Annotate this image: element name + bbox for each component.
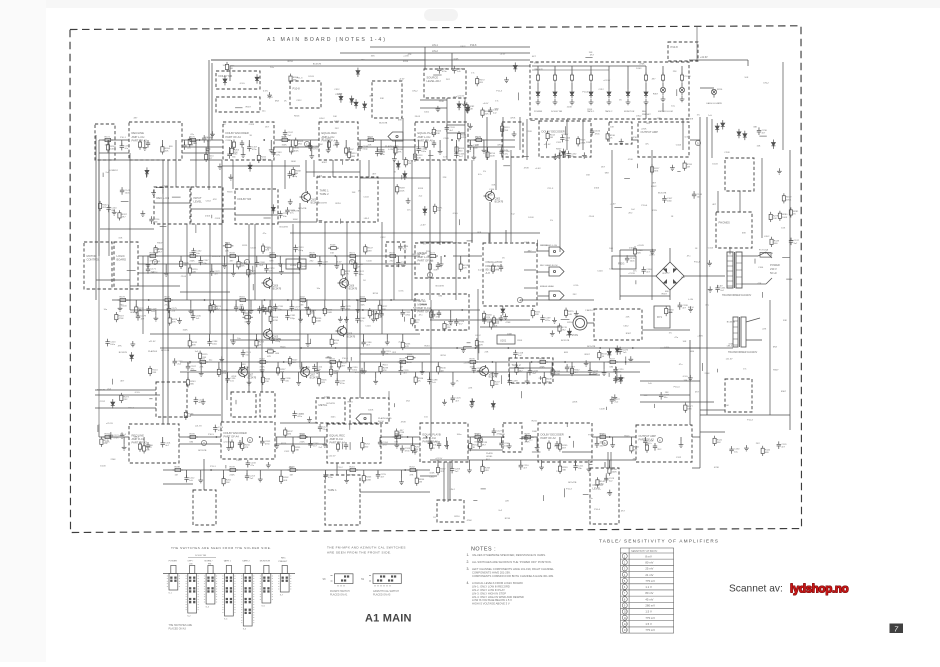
wire: [468, 146, 515, 148]
capacitor C145: [432, 140, 436, 148]
wire: [559, 150, 561, 252]
wire: [256, 256, 258, 263]
resistor R192: [258, 358, 269, 368]
ground: [553, 99, 558, 105]
wire: [261, 437, 263, 441]
svg-text:47K: 47K: [213, 199, 217, 201]
wire: [590, 83, 592, 89]
resistor R129: [405, 354, 416, 364]
capacitor C173: [264, 265, 275, 273]
svg-text:C209: C209: [524, 242, 530, 244]
diode D136: [271, 204, 275, 213]
capacitor C213: [245, 473, 256, 481]
svg-text:100n: 100n: [424, 112, 430, 114]
resistor R106: [661, 73, 664, 83]
ground: [413, 448, 418, 454]
capacitor C121: [109, 432, 120, 440]
switch S9 (AZIMUTH CAL): [361, 574, 401, 587]
capacitor C133: [293, 245, 304, 253]
wire: [306, 171, 360, 173]
wire: [572, 441, 574, 448]
wire: [107, 140, 109, 145]
svg-text:LIN-2: ONLY LOW IN PLAY: LIN-2: ONLY LOW IN PLAY: [472, 588, 505, 592]
resistor R272: [476, 76, 486, 86]
resistor R276: [558, 323, 568, 333]
capacitor C180: [191, 313, 202, 321]
block TAPE 2 sense block: [509, 358, 553, 383]
svg-text:1M: 1M: [408, 163, 411, 165]
wire: [138, 255, 420, 257]
svg-text:100K: 100K: [291, 161, 297, 163]
capacitor C176: [234, 304, 245, 312]
svg-text:100n: 100n: [421, 151, 427, 153]
block playb level block: [503, 423, 522, 452]
capacitor C228: [659, 392, 670, 400]
svg-text:22K: 22K: [200, 366, 204, 368]
capacitor C221: [264, 307, 275, 315]
capacitor C141: [120, 187, 131, 195]
bridge rectifier D301-D304: [656, 262, 684, 290]
svg-text:BC547B: BC547B: [212, 256, 221, 258]
wire: [477, 289, 479, 360]
wire: [195, 224, 197, 233]
wire: [700, 431, 725, 433]
resistor R223: [135, 304, 145, 314]
resistor R201: [348, 466, 359, 476]
svg-text:LEVEL: LEVEL: [194, 199, 203, 203]
svg-text:47K: 47K: [267, 356, 271, 358]
wire: [276, 437, 278, 443]
ground: [151, 190, 156, 196]
capacitor C139: [540, 315, 551, 323]
ground: [503, 314, 508, 320]
svg-text:470K: 470K: [467, 520, 473, 522]
svg-text:1%: 1%: [302, 302, 305, 304]
resistor R142: [761, 446, 771, 456]
wire: [571, 66, 573, 75]
svg-text:220K: 220K: [360, 304, 366, 306]
svg-text:EQUAL PLAYB: EQUAL PLAYB: [423, 432, 441, 436]
svg-text:15K: 15K: [644, 395, 648, 397]
svg-text:NORM /: NORM /: [205, 561, 213, 563]
svg-text:10K: 10K: [319, 144, 323, 146]
capacitor C232: [566, 151, 577, 159]
resistor R202: [408, 466, 419, 476]
svg-text:P10-8: P10-8: [293, 87, 301, 91]
resistor R111: [457, 131, 466, 141]
resistor R132: [492, 315, 502, 325]
resistor R245: [317, 376, 327, 386]
resistor R145: [261, 244, 271, 254]
ground: [206, 146, 211, 152]
wire: [669, 290, 671, 300]
resistor R149: [770, 237, 780, 247]
svg-text:LIN-1: LIN-1: [432, 44, 439, 47]
wire: [235, 214, 278, 216]
svg-text:C209: C209: [226, 140, 232, 142]
svg-text:50 Hz: 50 Hz: [770, 271, 777, 275]
wire: [447, 132, 465, 134]
wire: [662, 103, 664, 112]
resistor R255: [558, 441, 568, 451]
wire: [316, 362, 318, 368]
diode D118: [396, 161, 400, 170]
wire: [182, 146, 223, 148]
capacitor C233: [246, 460, 257, 468]
svg-text:BC547B: BC547B: [280, 227, 289, 229]
svg-text:D103: D103: [528, 217, 534, 219]
resistor R239: [379, 364, 389, 374]
resistor R275: [564, 308, 574, 318]
wire: [620, 249, 656, 251]
capacitor C156: [182, 142, 193, 150]
svg-text:470K: 470K: [607, 493, 613, 495]
wire: [252, 266, 254, 272]
ground: [406, 198, 411, 204]
svg-text:1%: 1%: [483, 171, 486, 173]
wire: [301, 362, 303, 367]
ground: [550, 330, 555, 336]
svg-text:TAPE 1: TAPE 1: [224, 560, 232, 563]
svg-text:P10-2: P10-2: [633, 137, 640, 139]
wire: [298, 256, 300, 263]
wire: [290, 232, 540, 234]
block level adj block: [424, 69, 466, 98]
ground: [644, 99, 649, 105]
wire: [440, 256, 442, 261]
svg-text:33K: 33K: [742, 233, 746, 235]
wire: [420, 241, 453, 243]
block DOLBY DECODER R (part of A7): [538, 423, 592, 462]
diode D132: [715, 123, 719, 132]
ground: [607, 490, 612, 496]
diode D122: [111, 399, 115, 408]
svg-text:47K: 47K: [539, 69, 543, 71]
svg-text:R129: R129: [407, 354, 413, 356]
wire: [273, 147, 275, 152]
ground: [344, 477, 349, 483]
svg-text:100K: 100K: [316, 321, 322, 323]
node junction: [414, 139, 416, 141]
svg-text:R181: R181: [240, 296, 246, 298]
wire: [520, 391, 522, 398]
wire: [607, 452, 609, 470]
wire: [213, 300, 215, 305]
block input jack block L: [95, 124, 115, 160]
wire: [121, 140, 123, 146]
ground: [525, 378, 530, 384]
resistor R151: [531, 308, 541, 318]
wire: [769, 300, 771, 415]
svg-text:15K: 15K: [757, 145, 761, 147]
resistor R238: [329, 367, 339, 377]
capacitor C198: [427, 377, 438, 385]
wire: [393, 147, 395, 156]
node junction: [283, 361, 285, 363]
svg-text:15K: 15K: [586, 175, 590, 177]
diode D125: [607, 348, 611, 357]
svg-text:0.5%: 0.5%: [453, 213, 458, 215]
svg-text:10K: 10K: [493, 326, 497, 328]
ground: [462, 101, 467, 107]
ground: [228, 174, 233, 180]
wire: [180, 361, 650, 363]
svg-text:100K: 100K: [327, 312, 333, 314]
wire: [468, 436, 503, 438]
svg-text:LIN-2: LIN-2: [475, 335, 481, 337]
ground: [777, 168, 782, 174]
svg-text:R201: R201: [350, 466, 356, 468]
ground: [550, 369, 555, 375]
capacitor C117: [482, 316, 493, 324]
svg-text:LOGICAL LEVELS FROM LOGIC: LOGICAL LEVELS FROM LOGIC BOARD:: [472, 581, 524, 585]
switch S7 (REC): [280, 565, 289, 596]
svg-text:220p: 220p: [363, 149, 369, 151]
svg-text:470K: 470K: [251, 273, 257, 275]
capacitor C178: [341, 304, 352, 312]
svg-text:R307: R307: [662, 293, 668, 295]
svg-text:DOLBY DECODER: DOLBY DECODER: [541, 432, 564, 436]
svg-text:470K: 470K: [221, 373, 227, 375]
wire: [190, 414, 221, 416]
svg-text:R194: R194: [400, 358, 406, 360]
node junction: [340, 361, 342, 363]
ground: [142, 144, 147, 150]
resistor R167: [188, 252, 199, 262]
wire: [460, 256, 462, 264]
wire: [209, 334, 211, 342]
wire: [360, 177, 430, 179]
svg-text:L-CH: L-CH: [388, 149, 394, 151]
block tape counter block: [437, 500, 464, 522]
wire: [429, 437, 431, 442]
wire: [501, 147, 503, 152]
wire: [270, 310, 272, 316]
svg-text:4.: 4.: [467, 581, 470, 585]
svg-text:LIN-2: LIN-2: [636, 115, 642, 117]
wire: [619, 250, 621, 300]
wire: [473, 362, 475, 369]
capacitor C182: [355, 316, 366, 324]
svg-text:LEVEL ADJ: LEVEL ADJ: [427, 79, 442, 83]
wire: [168, 300, 170, 308]
wire: [563, 488, 565, 497]
svg-text:DOLBY ENCODER: DOLBY ENCODER: [226, 131, 249, 135]
svg-text:470K: 470K: [505, 322, 511, 324]
resistor R147: [364, 244, 374, 254]
wire: [270, 140, 272, 147]
resistor R243: [186, 377, 196, 387]
wire: [340, 52, 530, 54]
capacitor C150: [555, 441, 559, 449]
svg-text:PART OF A2: PART OF A2: [541, 436, 557, 440]
node junction: [444, 255, 446, 257]
diode D115: [145, 167, 149, 176]
svg-text:R180: R180: [165, 296, 171, 298]
switch S8 (FM-MPX): [323, 574, 354, 587]
wire: [379, 437, 381, 442]
svg-text:15K: 15K: [330, 253, 334, 255]
svg-text:DOLBY ENCODER: DOLBY ENCODER: [224, 431, 247, 435]
wire: [505, 230, 507, 243]
svg-text:47K: 47K: [431, 448, 435, 450]
node junction: [306, 436, 308, 438]
wire: [143, 437, 145, 446]
capacitor C142: [146, 140, 150, 148]
capacitor C205: [428, 439, 439, 447]
node junction: [216, 436, 218, 438]
wire: [394, 140, 396, 148]
svg-text:OFF /: OFF /: [188, 561, 194, 563]
node junction: [431, 309, 433, 311]
wire: [228, 147, 230, 154]
svg-text:P11-3: P11-3: [496, 91, 502, 93]
ground: [373, 378, 378, 384]
resistor R141: [713, 436, 723, 446]
wire: [439, 140, 441, 148]
svg-text:R174: R174: [105, 136, 111, 138]
ground: [448, 319, 453, 325]
capacitor C162: [227, 151, 238, 159]
svg-text:47K: 47K: [361, 59, 365, 61]
wire: [471, 233, 473, 243]
wire: [307, 334, 309, 341]
diode D119: [403, 171, 407, 180]
svg-text:220K: 220K: [724, 405, 730, 407]
svg-text:C104: C104: [708, 248, 714, 250]
capacitor C211: [573, 463, 584, 471]
resistor R175: [188, 136, 199, 146]
wire: [739, 191, 741, 212]
capacitor C124: [292, 411, 303, 419]
svg-text:LIN-3: LIN-3: [460, 46, 466, 48]
svg-text:R216: R216: [441, 355, 447, 357]
svg-text:15K: 15K: [265, 381, 269, 383]
svg-text:LOGIC: LOGIC: [117, 254, 125, 258]
svg-text:ARE SEEN FROM THE FRONT S: ARE SEEN FROM THE FRONT SIDE.: [327, 550, 392, 554]
svg-text:100n: 100n: [630, 260, 636, 262]
svg-text:1M: 1M: [146, 449, 149, 451]
wire: [240, 362, 242, 367]
ground: [344, 316, 349, 322]
node junction: [287, 299, 289, 301]
svg-text:R167: R167: [190, 252, 196, 254]
svg-text:470K: 470K: [273, 320, 279, 322]
legend text: switches placed on A3: [169, 624, 193, 630]
svg-text:P10-4: P10-4: [694, 262, 701, 264]
wire: [318, 372, 320, 379]
wire: [566, 119, 568, 150]
ground: [112, 209, 117, 215]
svg-text:C104: C104: [489, 189, 495, 191]
svg-text:220K: 220K: [641, 128, 647, 130]
svg-text:1%: 1%: [556, 471, 559, 473]
svg-text:LIN-2: LIN-2: [319, 118, 325, 120]
resistor R265: [225, 62, 235, 72]
wire: [100, 228, 154, 230]
capacitor C230: [757, 127, 768, 135]
svg-text:R216: R216: [294, 115, 300, 117]
wire: [587, 322, 594, 324]
ground: [469, 402, 474, 408]
svg-text:230 V: 230 V: [770, 267, 777, 271]
svg-text:C104: C104: [181, 276, 187, 278]
block output level pot block: [590, 468, 619, 524]
svg-text:D103: D103: [594, 187, 600, 189]
svg-text:220p: 220p: [298, 250, 304, 252]
switch S2 (OFF /): [187, 565, 196, 617]
resistor R101: [536, 73, 539, 83]
capacitor C219: [437, 66, 448, 74]
wire: [487, 147, 489, 152]
svg-text:P10-4: P10-4: [342, 358, 349, 360]
svg-text:470K: 470K: [119, 318, 125, 320]
svg-text:R216: R216: [268, 97, 274, 99]
resistor R253: [411, 443, 421, 453]
ground: [470, 398, 475, 404]
ground: [269, 147, 274, 153]
svg-text:METER ILLUM: METER ILLUM: [658, 111, 673, 113]
wire: [187, 362, 189, 366]
svg-text:PLACED ON A3: PLACED ON A3: [169, 627, 187, 630]
node number 6: [657, 437, 662, 442]
svg-text:C312: C312: [333, 145, 339, 147]
ground: [188, 308, 193, 314]
svg-text:22K: 22K: [718, 103, 722, 105]
ground: [468, 123, 473, 129]
ground: [439, 261, 444, 267]
ground: [246, 319, 251, 325]
transistor Q105: [262, 328, 282, 341]
svg-text:R166: R166: [150, 252, 156, 254]
capacitor C209: [450, 466, 461, 474]
wire: [232, 160, 234, 189]
svg-text:R175: R175: [190, 136, 196, 138]
wire: [393, 403, 395, 407]
resistor R257: [436, 465, 446, 475]
wire: [677, 171, 680, 173]
wire: [486, 117, 488, 160]
wire: [645, 83, 647, 89]
resistor R158: [230, 440, 233, 450]
block oscillator frequency block: [483, 243, 537, 306]
wire: [469, 140, 471, 145]
block line out block: [609, 122, 632, 144]
svg-text:1M: 1M: [379, 317, 382, 319]
svg-text:R216: R216: [425, 346, 431, 348]
wire: [583, 494, 589, 496]
svg-text:OSCILLATOR: OSCILLATOR: [486, 260, 503, 264]
wire: [377, 149, 384, 151]
ground: [744, 445, 749, 451]
wire: [471, 160, 473, 242]
capacitor C207: [595, 440, 606, 448]
resistor R170: [308, 252, 319, 262]
wire: [354, 256, 356, 263]
wire: [635, 280, 637, 284]
capstan motor M1: [566, 316, 587, 337]
wire: [262, 372, 264, 377]
svg-text:+4.6V: +4.6V: [649, 255, 655, 257]
node junction: [475, 347, 477, 349]
wire: [437, 460, 439, 467]
svg-text:BC557B: BC557B: [319, 203, 328, 205]
ground: [436, 106, 441, 112]
svg-text:R190: R190: [600, 433, 606, 435]
wire: [346, 222, 348, 362]
ground: [219, 356, 224, 362]
svg-text:470n: 470n: [113, 437, 119, 439]
